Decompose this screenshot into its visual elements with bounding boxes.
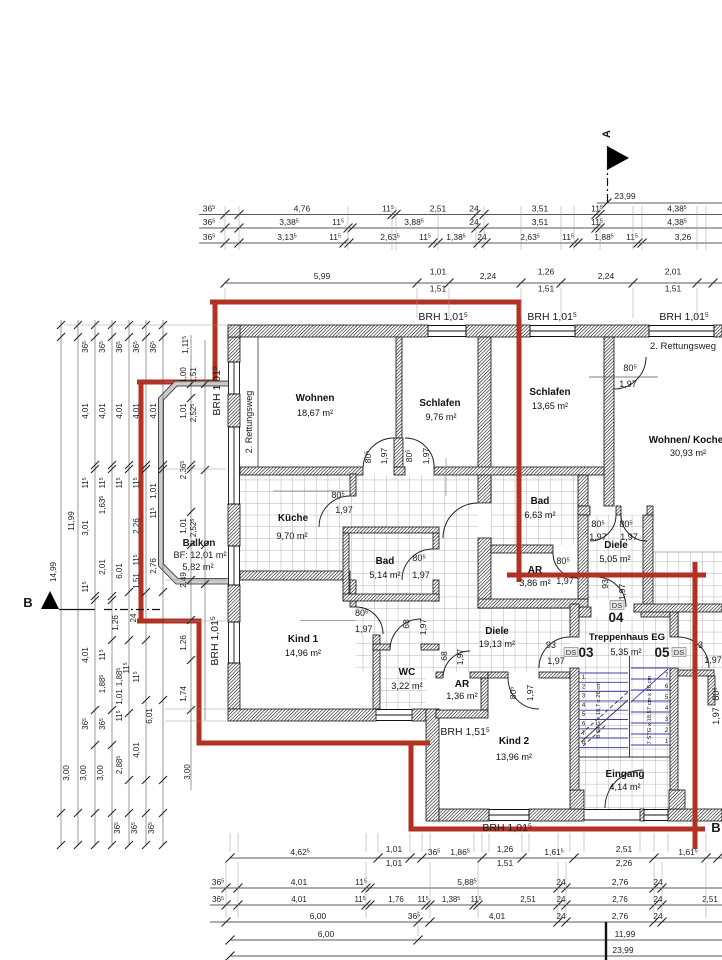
svg-text:30,93 m²: 30,93 m² xyxy=(670,448,706,458)
svg-text:1,01: 1,01 xyxy=(430,267,447,277)
dim row bottom 3 xyxy=(210,904,722,906)
svg-text:B: B xyxy=(23,595,32,610)
svg-text:19,13 m²: 19,13 m² xyxy=(479,639,515,649)
Kind2 top wall xyxy=(488,672,508,678)
svg-text:2,26: 2,26 xyxy=(132,518,141,534)
svg-text:1,97: 1,97 xyxy=(421,447,431,464)
svg-text:3,26: 3,26 xyxy=(675,232,692,242)
svg-text:Küche: Küche xyxy=(278,513,309,524)
exterior wall top xyxy=(228,325,428,337)
svg-text:24: 24 xyxy=(477,232,487,242)
wall WC left xyxy=(373,635,380,709)
door leaf line Wohnen/Kochen xyxy=(589,376,658,378)
door Diele 5,05 right arc xyxy=(621,515,647,541)
svg-text:2,76: 2,76 xyxy=(149,558,158,574)
door AR 1,36 arc xyxy=(443,651,470,678)
svg-text:24: 24 xyxy=(469,204,479,214)
door Kueche arc xyxy=(319,496,350,527)
wall Kind1 right upper xyxy=(350,580,356,607)
svg-text:1,51: 1,51 xyxy=(430,284,447,294)
svg-text:4,14 m²: 4,14 m² xyxy=(609,782,640,792)
dim row top 2 xyxy=(199,227,722,229)
svg-text:24: 24 xyxy=(129,613,138,622)
svg-text:3,51: 3,51 xyxy=(532,204,549,214)
svg-text:1,97: 1,97 xyxy=(335,505,353,515)
svg-text:1,97: 1,97 xyxy=(355,624,373,634)
Eingang threshold xyxy=(584,809,640,811)
wall Kind1 top xyxy=(240,571,350,580)
svg-text:Wohnen/ Kochen: Wohnen/ Kochen xyxy=(649,435,722,446)
tiled floor Bad 6,63 xyxy=(491,475,578,545)
door AR 3,86 arc xyxy=(553,553,578,578)
interior wall Schlafen/Bad column xyxy=(478,337,491,503)
staircase treads left flight xyxy=(579,673,628,747)
svg-text:1,51: 1,51 xyxy=(132,573,141,589)
svg-text:1,76: 1,76 xyxy=(388,895,404,904)
dim row bottom 6 xyxy=(230,955,722,957)
interior wall Schlafen 13,65 / Wohnen-Kochen xyxy=(604,337,614,506)
svg-text:3,22 m²: 3,22 m² xyxy=(391,681,423,691)
left block extension lines xyxy=(165,381,226,383)
svg-text:1,97: 1,97 xyxy=(455,648,465,665)
stair divider xyxy=(629,656,631,757)
svg-text:DS: DS xyxy=(566,648,576,657)
svg-text:03: 03 xyxy=(578,645,594,660)
exterior wall bottom xyxy=(439,809,489,821)
svg-text:6,01: 6,01 xyxy=(145,708,154,724)
windows bottom wall xyxy=(489,809,529,811)
dim row top 3 xyxy=(199,242,722,244)
svg-text:Wohnen: Wohnen xyxy=(296,393,335,404)
door guide line Kind1 xyxy=(300,620,356,622)
svg-text:1,01: 1,01 xyxy=(149,483,158,499)
svg-text:1,26: 1,26 xyxy=(111,615,120,631)
windows left wall xyxy=(228,362,230,394)
interior wall Wohnen/Schlafen xyxy=(396,337,402,438)
svg-text:4,01: 4,01 xyxy=(291,895,307,904)
door Bad 5,14 arc xyxy=(402,549,433,580)
interior wall below top rooms xyxy=(240,467,363,475)
svg-text:3,00: 3,00 xyxy=(183,764,192,780)
left dim ticks xyxy=(57,321,65,329)
svg-text:4,01: 4,01 xyxy=(98,403,107,419)
svg-text:Eingang: Eingang xyxy=(606,769,645,780)
svg-text:93: 93 xyxy=(546,640,556,650)
exterior wall left of Kind 2 xyxy=(426,709,439,821)
svg-text:1,26: 1,26 xyxy=(179,635,188,651)
top block extension lines xyxy=(224,206,226,250)
wall Bad6,63 / AR3,86 xyxy=(491,545,553,553)
svg-text:24: 24 xyxy=(653,911,663,921)
svg-text:Kind 1: Kind 1 xyxy=(288,634,319,645)
svg-text:11,99: 11,99 xyxy=(67,511,76,531)
door unit 05 arc xyxy=(678,637,709,668)
tiled floor Kueche xyxy=(240,474,350,571)
tile edge line xyxy=(653,551,722,553)
svg-text:WC: WC xyxy=(399,667,416,678)
Bad 5,14 box walls xyxy=(343,527,439,533)
svg-text:5,14 m²: 5,14 m² xyxy=(369,570,400,580)
svg-text:1,01: 1,01 xyxy=(115,689,124,705)
svg-text:BRH 1,015: BRH 1,015 xyxy=(482,822,532,834)
dim row top 4 xyxy=(225,282,722,284)
bottom block extension lines xyxy=(229,833,231,852)
dim row bottom 5 xyxy=(230,939,722,941)
dim row top 1 xyxy=(199,214,722,216)
svg-text:3,86 m²: 3,86 m² xyxy=(519,578,551,588)
svg-text:5,99: 5,99 xyxy=(314,271,331,281)
svg-text:B: B xyxy=(711,820,720,835)
svg-text:2,01: 2,01 xyxy=(98,559,107,575)
door Schlafen 9,76 arc xyxy=(405,438,434,469)
svg-text:24: 24 xyxy=(654,895,663,904)
staircase treads right flight xyxy=(631,668,670,745)
svg-text:1,97: 1,97 xyxy=(711,707,721,725)
wall niche left of Diele box xyxy=(578,475,588,506)
WC top wall xyxy=(373,644,390,650)
svg-text:2. Rettungsweg: 2. Rettungsweg xyxy=(244,391,254,454)
svg-text:68: 68 xyxy=(401,619,411,629)
tiled floor Diele 19,13 xyxy=(356,601,570,672)
svg-text:6,00: 6,00 xyxy=(318,929,335,939)
dim row bottom 4 xyxy=(210,921,722,923)
svg-text:24: 24 xyxy=(556,911,566,921)
window WC bottom (BRH 1,51) xyxy=(376,709,412,711)
svg-text:6,00: 6,00 xyxy=(310,911,327,921)
svg-text:24: 24 xyxy=(653,877,663,887)
svg-text:18,67 m²: 18,67 m² xyxy=(297,408,333,418)
svg-text:8 STG x 18,7 x 26 cm: 8 STG x 18,7 x 26 cm xyxy=(596,682,602,738)
door Bad 6,63 arc xyxy=(443,503,478,538)
svg-text:3,51: 3,51 xyxy=(532,217,549,227)
wall stub between doors xyxy=(394,438,403,467)
DS boxes xyxy=(564,648,578,657)
svg-text:1,97: 1,97 xyxy=(619,379,637,389)
svg-text:7 STG x 18,57 cm x 26 cm: 7 STG x 18,57 cm x 26 cm xyxy=(647,676,653,745)
svg-text:2,49: 2,49 xyxy=(179,572,188,588)
svg-text:13,65 m²: 13,65 m² xyxy=(532,401,568,411)
svg-text:23,99: 23,99 xyxy=(614,191,636,201)
svg-text:A: A xyxy=(601,130,613,138)
svg-text:24: 24 xyxy=(469,217,479,227)
door guide line Kueche xyxy=(273,490,349,492)
svg-text:14,96 m²: 14,96 m² xyxy=(285,648,321,658)
tiled floor unit 05 hall xyxy=(653,552,722,604)
svg-text:Bad: Bad xyxy=(531,496,550,507)
svg-text:11,99: 11,99 xyxy=(615,929,636,939)
door Diele 5,05 left arc xyxy=(590,515,616,541)
red section overlay polygon unit 04 xyxy=(141,302,695,829)
svg-text:5,35 m²: 5,35 m² xyxy=(610,647,641,657)
svg-text:24: 24 xyxy=(556,877,566,887)
svg-text:1,97: 1,97 xyxy=(617,583,627,600)
tiled floor Treppenhaus and Eingang xyxy=(579,617,670,809)
svg-text:1,51: 1,51 xyxy=(665,284,682,294)
svg-text:93: 93 xyxy=(600,579,610,589)
svg-text:1,74: 1,74 xyxy=(179,686,188,702)
svg-text:1,97: 1,97 xyxy=(412,570,430,580)
svg-text:1,51: 1,51 xyxy=(497,858,514,868)
svg-text:1,26: 1,26 xyxy=(538,267,555,277)
treppenhaus wall feet at bottom wall xyxy=(570,790,584,809)
svg-text:BRH 1,515: BRH 1,515 xyxy=(440,726,490,738)
stair landing line xyxy=(579,756,670,758)
svg-text:2,26: 2,26 xyxy=(616,858,633,868)
door Eingang arc xyxy=(605,770,643,808)
tiled floor Diele 5,05 xyxy=(588,515,643,599)
svg-text:BRH 1,015: BRH 1,015 xyxy=(659,311,709,323)
Rettungsweg strip line xyxy=(257,337,259,467)
door unit 04 arc xyxy=(596,577,626,607)
left dim columns xyxy=(60,320,62,845)
svg-text:DS: DS xyxy=(674,648,684,657)
svg-text:Diele: Diele xyxy=(485,626,509,637)
exterior wall left xyxy=(228,337,240,362)
svg-text:04: 04 xyxy=(608,610,624,625)
tiled floor corridor and Bad 5,14 xyxy=(349,475,478,601)
door Wohnen arc xyxy=(363,438,394,469)
svg-text:BRH 1,015: BRH 1,015 xyxy=(211,366,223,416)
balcony outline xyxy=(161,384,228,582)
door guide line corridor xyxy=(445,458,447,496)
svg-text:Balkon: Balkon xyxy=(183,538,216,549)
svg-text:4,01: 4,01 xyxy=(132,742,141,758)
svg-text:1,01: 1,01 xyxy=(179,403,188,419)
svg-text:13,96 m²: 13,96 m² xyxy=(496,752,532,762)
svg-text:9,76 m²: 9,76 m² xyxy=(425,412,456,422)
red overshoot stubs xyxy=(507,573,519,578)
svg-text:1,97: 1,97 xyxy=(525,684,535,701)
svg-text:4,01: 4,01 xyxy=(132,403,141,419)
svg-text:BRH 1,015: BRH 1,015 xyxy=(527,311,577,323)
svg-text:BRH 1,015: BRH 1,015 xyxy=(209,616,221,666)
door Schlafen 13,65 arc xyxy=(614,357,646,389)
svg-text:4,76: 4,76 xyxy=(294,204,311,214)
svg-text:DS: DS xyxy=(612,601,622,610)
svg-text:23,99: 23,99 xyxy=(612,945,634,955)
tiled floor WC xyxy=(380,650,426,709)
svg-text:6,01: 6,01 xyxy=(115,563,124,579)
svg-text:2,51: 2,51 xyxy=(520,895,536,904)
svg-text:1,36 m²: 1,36 m² xyxy=(446,691,478,701)
svg-text:2,51: 2,51 xyxy=(702,895,718,904)
door Kind 1 arc xyxy=(356,607,383,634)
windows top wall xyxy=(428,325,466,327)
svg-text:6,63 m²: 6,63 m² xyxy=(524,510,555,520)
svg-text:2. Rettungsweg: 2. Rettungsweg xyxy=(650,341,716,352)
svg-text:4,01: 4,01 xyxy=(81,403,90,419)
svg-text:3,00: 3,00 xyxy=(79,765,88,781)
svg-text:2,76: 2,76 xyxy=(612,895,628,904)
svg-text:1,00: 1,00 xyxy=(179,367,188,383)
svg-text:1,01: 1,01 xyxy=(386,844,403,854)
dim top total 23,99 xyxy=(597,202,722,204)
AR 3,86 bottom wall xyxy=(478,599,588,608)
svg-text:4,01: 4,01 xyxy=(489,911,506,921)
svg-text:4,01: 4,01 xyxy=(115,403,124,419)
svg-text:1,51: 1,51 xyxy=(538,284,555,294)
svg-text:2,24: 2,24 xyxy=(480,271,497,281)
AR 1,36 box walls xyxy=(436,672,443,678)
svg-text:AR: AR xyxy=(455,679,470,690)
svg-text:14,99: 14,99 xyxy=(49,561,58,582)
svg-text:Bad: Bad xyxy=(376,556,395,567)
svg-text:1,97: 1,97 xyxy=(547,656,565,666)
svg-text:BF: 12,01 m²: BF: 12,01 m² xyxy=(173,550,226,560)
svg-text:4,01: 4,01 xyxy=(149,403,158,419)
Diele 5,05 box walls xyxy=(578,506,590,515)
wall Kueche right xyxy=(350,474,356,496)
svg-text:1,51: 1,51 xyxy=(189,367,198,383)
door Kind 2 arc xyxy=(508,678,539,709)
svg-text:4,01: 4,01 xyxy=(81,647,90,663)
svg-text:2,24: 2,24 xyxy=(598,271,615,281)
svg-text:BRH 1,015: BRH 1,015 xyxy=(418,311,468,323)
svg-text:1,97: 1,97 xyxy=(704,655,722,665)
wall top of unit 05 lower part xyxy=(634,604,722,612)
svg-text:3,00: 3,00 xyxy=(96,765,105,781)
svg-text:Schlafen: Schlafen xyxy=(529,387,570,398)
svg-text:5,05 m²: 5,05 m² xyxy=(599,554,630,564)
svg-text:2,76: 2,76 xyxy=(612,911,629,921)
svg-text:1,01: 1,01 xyxy=(386,858,403,868)
svg-text:2,51: 2,51 xyxy=(616,844,633,854)
stair break lines xyxy=(581,700,628,742)
svg-text:2,01: 2,01 xyxy=(665,267,682,277)
svg-text:3,00: 3,00 xyxy=(62,765,71,781)
svg-text:Kind 2: Kind 2 xyxy=(499,736,530,747)
svg-text:5,82 m²: 5,82 m² xyxy=(182,562,213,572)
unit 05 interior wall xyxy=(678,670,714,676)
svg-text:68: 68 xyxy=(439,651,449,661)
exterior wall bottom of Kind 1 / WC xyxy=(228,709,376,721)
svg-text:05: 05 xyxy=(654,645,670,660)
svg-text:1,01: 1,01 xyxy=(179,518,188,534)
dim row bottom 2 xyxy=(210,887,722,889)
svg-text:Diele: Diele xyxy=(604,540,628,551)
door WC arc xyxy=(390,619,421,650)
svg-text:2,76: 2,76 xyxy=(612,877,629,887)
door unit 03 arc xyxy=(539,637,570,668)
svg-text:1,26: 1,26 xyxy=(497,844,514,854)
svg-text:1,97: 1,97 xyxy=(379,447,389,464)
svg-text:3,01: 3,01 xyxy=(81,520,90,536)
section marker A top xyxy=(607,146,629,170)
svg-text:4,01: 4,01 xyxy=(291,877,308,887)
dim row bottom 1 xyxy=(230,857,722,859)
Treppenhaus walls xyxy=(570,604,579,637)
svg-text:AR: AR xyxy=(528,565,543,576)
svg-text:Treppenhaus EG: Treppenhaus EG xyxy=(589,632,665,643)
section line A bottom xyxy=(605,922,607,960)
svg-text:1,97: 1,97 xyxy=(418,618,428,635)
svg-text:Schlafen: Schlafen xyxy=(419,398,460,409)
svg-text:9,70 m²: 9,70 m² xyxy=(276,531,307,541)
